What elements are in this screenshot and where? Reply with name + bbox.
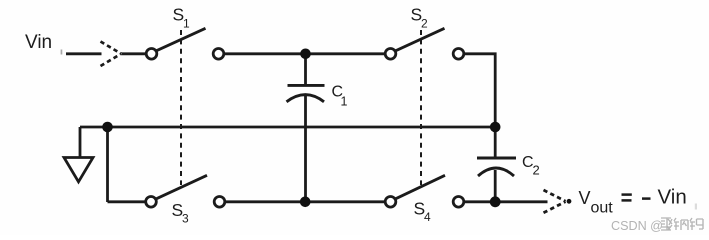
svg-text:Vin: Vin xyxy=(25,32,52,53)
svg-text:2: 2 xyxy=(421,17,428,31)
svg-text:4: 4 xyxy=(424,210,431,224)
svg-text:1: 1 xyxy=(183,17,190,31)
svg-text:1: 1 xyxy=(341,95,348,109)
svg-text:out: out xyxy=(591,200,614,217)
svg-text:Vin: Vin xyxy=(658,186,687,209)
svg-text:3: 3 xyxy=(182,212,189,226)
svg-text:CSDN @: CSDN @ xyxy=(611,219,663,233)
svg-text:2: 2 xyxy=(533,163,540,178)
svg-text:V: V xyxy=(579,188,591,208)
